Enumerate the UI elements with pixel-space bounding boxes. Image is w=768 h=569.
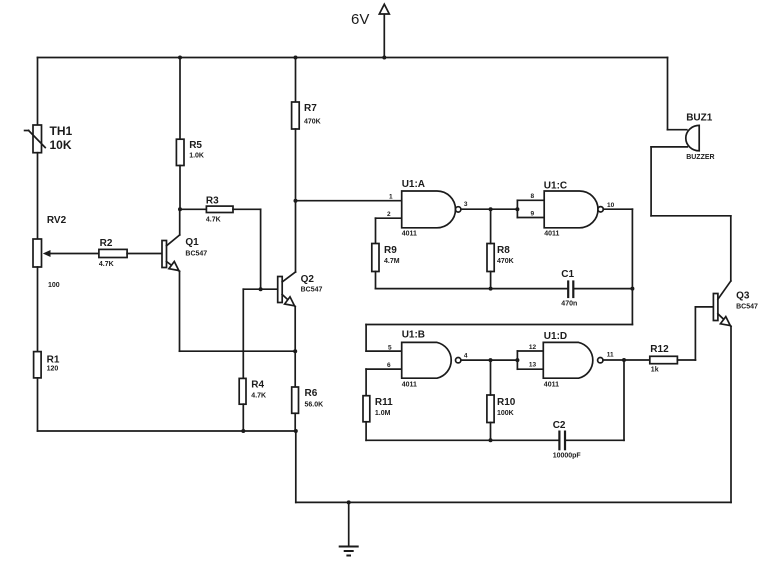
svg-text:BUZ1: BUZ1 xyxy=(686,113,713,124)
resistor R7 xyxy=(292,102,300,129)
svg-text:4.7K: 4.7K xyxy=(99,261,114,268)
wire R5 bottom xyxy=(179,166,181,210)
svg-text:1k: 1k xyxy=(651,367,659,374)
svg-text:4011: 4011 xyxy=(402,231,417,238)
node C1 right junction xyxy=(630,287,634,291)
wire left rail mid1 xyxy=(37,153,39,239)
wire pin6 down to R11 xyxy=(365,369,367,396)
svg-text:R4: R4 xyxy=(251,380,264,391)
svg-text:BC547: BC547 xyxy=(301,287,323,294)
node R10 bottom junction xyxy=(489,438,493,442)
transistor Q3 xyxy=(713,281,731,326)
resistor R2 xyxy=(99,249,127,257)
transistor Q1 xyxy=(162,235,180,271)
wire feedback to pin5 xyxy=(365,325,367,352)
capacitor C1 xyxy=(568,282,632,298)
node U1:D input junction xyxy=(515,358,519,362)
svg-text:C1: C1 xyxy=(561,269,574,280)
svg-text:4.7K: 4.7K xyxy=(206,217,221,224)
svg-text:10: 10 xyxy=(607,202,615,209)
svg-text:U1:D: U1:D xyxy=(544,331,567,342)
capacitor C2 xyxy=(559,432,624,450)
wire Q2 base horizontal xyxy=(243,288,277,290)
wire buzzer bottom xyxy=(651,146,687,148)
wire pin1 horizontal xyxy=(296,200,402,202)
wire pin4 output xyxy=(461,359,517,361)
svg-text:470n: 470n xyxy=(561,301,577,308)
svg-text:Q3: Q3 xyxy=(736,291,750,302)
svg-text:4: 4 xyxy=(464,353,468,360)
wire Q3 emitter down xyxy=(730,326,732,502)
resistor R5 xyxy=(176,139,184,165)
wire Q1 collector up xyxy=(179,209,181,235)
thermistor TH1 xyxy=(25,125,46,153)
svg-text:1.0K: 1.0K xyxy=(189,153,204,160)
wire R6 bottom xyxy=(294,413,296,431)
wire buzzer down xyxy=(650,147,652,216)
wire Q3 base horizontal xyxy=(695,306,713,308)
svg-text:11: 11 xyxy=(607,352,614,359)
svg-text:9: 9 xyxy=(531,211,535,218)
op-amp U1:C nand gate xyxy=(544,191,603,228)
node R4 bottom junction xyxy=(241,429,245,433)
wire left rail lower xyxy=(37,378,39,431)
svg-text:R12: R12 xyxy=(650,344,669,355)
svg-text:5: 5 xyxy=(388,345,392,352)
wire feedback horizontal xyxy=(366,324,632,326)
wire Q3 collector up xyxy=(730,216,732,281)
svg-text:100: 100 xyxy=(48,282,60,289)
wire R7 bottom xyxy=(295,129,297,272)
wire R4 top vertical xyxy=(242,289,244,378)
svg-text:U1:B: U1:B xyxy=(402,330,425,341)
svg-text:6: 6 xyxy=(387,362,391,369)
node 6V junction xyxy=(382,56,386,60)
wire up to Q3 base xyxy=(694,307,696,360)
node R10 top junction xyxy=(489,358,493,362)
svg-text:2: 2 xyxy=(387,211,391,218)
node R6 bottom junction xyxy=(294,429,298,433)
node R8 bottom junction xyxy=(489,287,493,291)
wire R3 down to Q2 base xyxy=(260,209,262,289)
wire top rail xyxy=(38,57,668,59)
wire R12 right xyxy=(677,359,695,361)
wire R3 left xyxy=(180,208,206,210)
wire feedback down xyxy=(631,209,633,324)
svg-text:Q2: Q2 xyxy=(301,274,315,285)
wire left rail upper xyxy=(37,58,39,126)
svg-text:BC547: BC547 xyxy=(736,304,758,311)
wire bottom left xyxy=(38,430,296,432)
svg-text:4.7M: 4.7M xyxy=(384,258,400,265)
ground xyxy=(340,502,358,555)
resistor R3 xyxy=(206,206,233,212)
node R3 junction xyxy=(178,207,182,211)
svg-text:470K: 470K xyxy=(497,258,514,265)
node U1:C input junction xyxy=(515,207,519,211)
svg-text:4.7K: 4.7K xyxy=(251,392,266,399)
node pin1 junction xyxy=(294,199,298,203)
wire left rail mid2 xyxy=(37,267,39,352)
wire R4 bottom xyxy=(242,404,244,431)
svg-text:56.0K: 56.0K xyxy=(305,402,324,409)
wire emitter node to R6 xyxy=(294,351,296,387)
wire R2 to Q1 base xyxy=(127,253,162,255)
svg-text:10K: 10K xyxy=(50,138,72,152)
svg-text:4011: 4011 xyxy=(544,382,559,389)
svg-text:R5: R5 xyxy=(189,140,202,151)
wire Q2 emitter down xyxy=(294,307,296,352)
svg-text:1.0M: 1.0M xyxy=(375,410,391,417)
resistor R1 xyxy=(34,352,42,378)
potentiometer RV2 xyxy=(33,239,99,267)
resistor R11 xyxy=(363,396,370,441)
node R8 top junction xyxy=(489,207,493,211)
svg-text:10000pF: 10000pF xyxy=(553,453,582,460)
svg-text:R9: R9 xyxy=(384,245,397,256)
svg-text:100K: 100K xyxy=(497,410,514,417)
svg-text:R1: R1 xyxy=(47,355,60,366)
svg-text:RV2: RV2 xyxy=(47,215,67,226)
svg-text:12: 12 xyxy=(529,344,537,351)
wire down to ground rail xyxy=(295,431,297,502)
svg-text:4011: 4011 xyxy=(544,231,559,238)
node emitter junction xyxy=(293,349,297,353)
wire emitter node horizontal xyxy=(180,350,296,352)
svg-text:4011: 4011 xyxy=(402,382,417,389)
wire R3 right xyxy=(233,208,261,210)
node pin11 junction xyxy=(622,358,626,362)
svg-text:R7: R7 xyxy=(304,103,317,114)
node R5 top junction xyxy=(178,56,182,60)
power 6V symbol xyxy=(379,4,389,57)
op-amp U1:A nand gate xyxy=(402,191,461,228)
wire buzzer to Q3 collector xyxy=(651,215,731,217)
svg-text:R11: R11 xyxy=(375,397,393,408)
wire Q1 emitter down xyxy=(179,271,181,351)
wire pin10 output xyxy=(603,208,632,210)
svg-text:13: 13 xyxy=(529,362,537,369)
wire pin11 output xyxy=(603,359,650,361)
wire pin5 horizontal xyxy=(366,350,402,352)
svg-text:R8: R8 xyxy=(497,245,510,256)
wire astable B bottom xyxy=(366,439,559,441)
svg-text:C2: C2 xyxy=(553,420,566,431)
svg-text:U1:C: U1:C xyxy=(544,181,567,192)
wire astable A bottom xyxy=(376,288,568,290)
wire U1:D input bar xyxy=(517,351,543,369)
resistor R12 xyxy=(650,356,678,363)
svg-text:R10: R10 xyxy=(497,397,516,408)
wire R5 rail top xyxy=(179,58,181,140)
svg-text:U1:A: U1:A xyxy=(402,179,425,190)
node ground junction xyxy=(347,500,351,504)
svg-text:R2: R2 xyxy=(100,238,113,249)
transistor Q2 xyxy=(278,272,296,307)
resistor R6 xyxy=(292,387,299,413)
svg-text:3: 3 xyxy=(464,201,468,208)
buzzer BUZ1 xyxy=(686,125,699,150)
resistor R4 xyxy=(239,378,246,404)
svg-text:1: 1 xyxy=(389,194,393,201)
node Q2 base junction xyxy=(259,287,263,291)
wire bottom rail xyxy=(296,501,731,503)
op-amp U1:B nand gate xyxy=(402,342,461,378)
svg-text:Q1: Q1 xyxy=(185,237,199,248)
wire pin2 horizontal xyxy=(376,217,402,219)
wire top rail down right xyxy=(667,58,669,130)
wire pin6 horizontal xyxy=(366,368,402,370)
svg-text:8: 8 xyxy=(531,193,535,200)
resistor R10 xyxy=(487,360,494,440)
resistor R9 xyxy=(372,244,379,289)
svg-text:BC547: BC547 xyxy=(185,251,207,258)
wire pin2 down to R9 xyxy=(375,218,377,243)
svg-text:BUZZER: BUZZER xyxy=(686,154,714,161)
wire R7 rail top xyxy=(295,58,297,103)
svg-text:6V: 6V xyxy=(351,11,369,28)
node R7 top junction xyxy=(294,56,298,60)
wire pin3 output xyxy=(461,208,517,210)
svg-text:120: 120 xyxy=(47,366,59,373)
op-amp U1:D nand gate xyxy=(543,342,603,378)
wire to buzzer top xyxy=(668,129,687,131)
svg-text:R3: R3 xyxy=(206,196,219,207)
svg-text:R6: R6 xyxy=(305,388,318,399)
resistor R8 xyxy=(487,209,494,288)
wire C2 right up xyxy=(623,360,625,440)
wire U1:C input bar xyxy=(517,200,544,217)
svg-text:TH1: TH1 xyxy=(50,124,73,138)
svg-text:470K: 470K xyxy=(304,119,321,126)
